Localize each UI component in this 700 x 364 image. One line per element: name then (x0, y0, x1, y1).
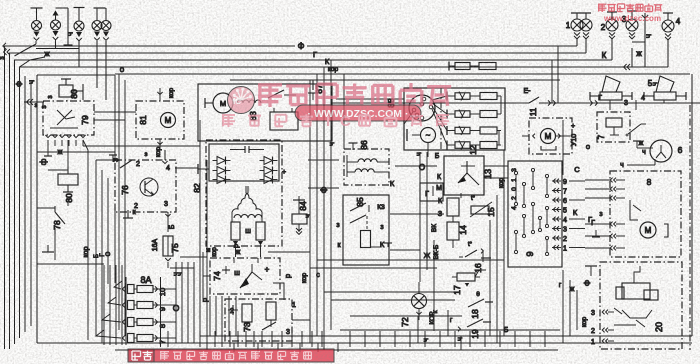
svg-text:1: 1 (292, 302, 296, 309)
svg-text:80: 80 (69, 89, 79, 99)
svg-text:IC: IC (233, 97, 241, 106)
svg-text:3: 3 (563, 227, 567, 234)
svg-text:10: 10 (158, 288, 167, 296)
svg-text:13: 13 (483, 169, 493, 179)
svg-text:ф: ф (39, 158, 48, 165)
svg-text:3: 3 (511, 168, 518, 172)
svg-text:К: К (380, 240, 385, 249)
svg-text:+: + (282, 169, 286, 176)
svg-text:2: 2 (591, 328, 595, 335)
svg-text:з: з (47, 95, 54, 98)
svg-text:ж: ж (636, 49, 642, 58)
svg-text:З: З (438, 211, 442, 218)
svg-text:ж: ж (236, 249, 241, 256)
svg-text:2: 2 (563, 236, 567, 243)
svg-text:з: з (599, 211, 602, 218)
svg-text:9: 9 (563, 179, 567, 186)
svg-text:2: 2 (136, 161, 140, 168)
svg-text:www.dzsc.com: www.dzsc.com (603, 14, 661, 23)
svg-text:16А: 16А (152, 238, 159, 251)
svg-text:1: 1 (511, 178, 518, 182)
svg-text:4: 4 (563, 217, 567, 224)
svg-text:з: з (380, 224, 383, 231)
svg-text:Г: Г (598, 95, 602, 102)
svg-text:Ф: Ф (582, 280, 592, 286)
svg-text:5: 5 (563, 208, 567, 215)
svg-text:82: 82 (192, 183, 202, 193)
svg-text:6: 6 (563, 198, 567, 205)
svg-text:75: 75 (170, 243, 180, 253)
svg-text:ч: ч (421, 338, 430, 342)
svg-text:р: р (233, 244, 240, 248)
svg-text:8: 8 (647, 177, 652, 187)
svg-text:ш: ш (245, 228, 251, 235)
svg-text:К: К (325, 57, 330, 66)
svg-text:8А: 8А (140, 275, 151, 285)
svg-text:кор: кор (301, 273, 308, 284)
svg-text:2: 2 (601, 23, 606, 32)
svg-text:7: 7 (597, 134, 606, 139)
svg-text:С: С (574, 165, 580, 174)
svg-text:кор: кор (83, 246, 90, 257)
svg-text:3: 3 (286, 329, 290, 336)
svg-text:+: + (571, 123, 575, 130)
svg-text:θ: θ (476, 291, 480, 298)
svg-text:ч: ч (416, 152, 423, 156)
svg-text:Г: Г (591, 220, 595, 227)
svg-text:кор: кор (328, 66, 339, 73)
svg-text:ж: ж (44, 49, 49, 58)
svg-text:76: 76 (120, 185, 130, 195)
svg-text:3: 3 (624, 100, 628, 107)
svg-text:7: 7 (158, 340, 167, 344)
svg-text:7: 7 (563, 189, 567, 196)
svg-text:17: 17 (452, 285, 462, 295)
svg-text:78: 78 (52, 220, 62, 230)
svg-text:р: р (200, 298, 209, 302)
svg-text:М: М (545, 132, 552, 141)
svg-text:кор: кор (168, 88, 175, 99)
svg-text:18: 18 (470, 309, 480, 319)
svg-text:У10: У10 (571, 134, 578, 146)
svg-text:72: 72 (400, 317, 410, 327)
svg-text:8: 8 (158, 324, 167, 328)
svg-text:ч: ч (650, 82, 659, 86)
svg-text:К: К (573, 208, 578, 217)
svg-text:+: + (265, 265, 270, 274)
svg-text:о: о (586, 142, 590, 151)
svg-text:3: 3 (591, 310, 595, 317)
svg-text:ч: ч (303, 214, 312, 218)
svg-text:6: 6 (678, 145, 683, 155)
svg-text:Б: Б (435, 153, 440, 160)
svg-text:11: 11 (529, 107, 538, 116)
svg-text:4: 4 (676, 17, 681, 26)
svg-text:ч: ч (642, 149, 646, 156)
svg-text:Ф: Ф (298, 41, 305, 51)
svg-text:85: 85 (355, 197, 365, 207)
svg-text:ж: ж (58, 149, 63, 156)
svg-text:t°: t° (468, 242, 473, 248)
svg-text:г: г (559, 282, 562, 289)
svg-text:80: 80 (64, 193, 74, 203)
svg-text:М: М (165, 116, 172, 125)
svg-text:Ф: Ф (15, 81, 24, 87)
svg-text:9: 9 (158, 307, 167, 311)
svg-text:84: 84 (298, 201, 308, 211)
svg-text:ч: ч (66, 32, 75, 36)
svg-text:кор: кор (155, 147, 162, 158)
svg-text:81: 81 (138, 115, 148, 125)
svg-text:3: 3 (164, 201, 168, 208)
svg-text:86: 86 (359, 140, 369, 150)
svg-text:К: К (390, 179, 395, 188)
svg-text:ч: ч (620, 162, 624, 169)
svg-text:9: 9 (525, 251, 535, 256)
svg-text:з: з (0, 56, 6, 59)
svg-text:1: 1 (563, 246, 567, 253)
svg-text:~: ~ (426, 131, 431, 140)
svg-text:М: М (645, 226, 652, 235)
svg-text:ВК: ВК (431, 224, 438, 232)
svg-text:79: 79 (80, 115, 90, 125)
svg-text:12: 12 (468, 145, 478, 155)
svg-text:Е-: Е- (524, 88, 532, 95)
svg-text:ч: ч (644, 34, 653, 38)
svg-text:к: к (432, 310, 439, 313)
svg-text:Б: Б (169, 224, 176, 229)
svg-text:Ф: Ф (319, 186, 329, 193)
svg-text:р: р (283, 274, 292, 278)
svg-text:з: з (336, 222, 339, 229)
svg-text:с: с (316, 272, 320, 279)
svg-text:2: 2 (511, 196, 518, 200)
svg-text:кор: кор (212, 247, 218, 257)
svg-text:ч: ч (27, 80, 36, 84)
svg-text:0: 0 (511, 187, 518, 191)
svg-text:з: з (35, 102, 38, 109)
svg-text:4: 4 (511, 206, 518, 210)
svg-text:О: О (106, 251, 112, 256)
svg-text:о: о (120, 65, 125, 74)
svg-text:К: К (602, 51, 607, 60)
svg-text:ч: ч (327, 142, 336, 146)
svg-text:C: C (340, 113, 351, 130)
svg-text:20: 20 (654, 322, 664, 332)
svg-text:Г: Г (313, 50, 317, 59)
svg-text:г: г (450, 317, 453, 324)
svg-text:1: 1 (566, 21, 571, 30)
svg-text:ш: ш (234, 270, 240, 277)
svg-text:15: 15 (486, 207, 496, 217)
svg-text:з: з (41, 105, 48, 108)
svg-text:М: М (220, 99, 226, 108)
svg-text:1: 1 (591, 339, 595, 346)
svg-text:I: I (326, 113, 330, 130)
svg-text:кор: кор (581, 317, 588, 328)
svg-text:74: 74 (212, 271, 222, 281)
svg-text:t°: t° (471, 196, 476, 202)
svg-text:К3: К3 (377, 204, 385, 211)
svg-text:з: з (145, 151, 148, 158)
svg-text:4: 4 (641, 95, 645, 102)
svg-text:ч: ч (455, 337, 464, 341)
svg-text:14: 14 (458, 225, 468, 235)
svg-text:М: М (436, 185, 442, 192)
svg-text:4: 4 (166, 165, 170, 172)
